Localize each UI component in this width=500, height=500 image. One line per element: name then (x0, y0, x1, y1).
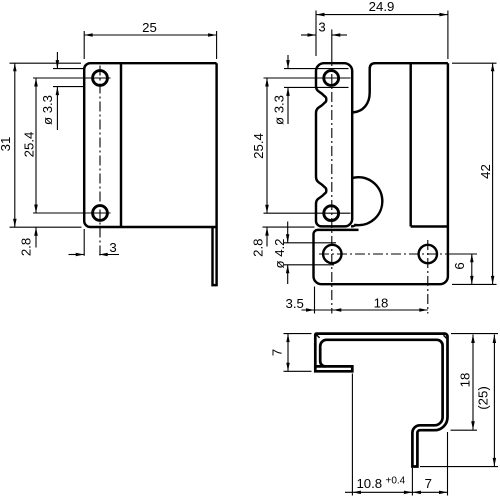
svg-text:2.8: 2.8 (251, 239, 266, 257)
svg-text:42: 42 (478, 164, 493, 179)
svg-text:18: 18 (374, 296, 389, 311)
svg-text:7: 7 (270, 349, 285, 356)
svg-text:25.4: 25.4 (22, 132, 37, 158)
svg-text:3: 3 (109, 240, 116, 255)
svg-text:ø 3.3: ø 3.3 (272, 95, 287, 125)
svg-text:3: 3 (318, 19, 325, 34)
svg-text:(25): (25) (476, 386, 491, 409)
svg-text:18: 18 (458, 373, 473, 388)
svg-text:24.9: 24.9 (369, 0, 395, 14)
svg-text:25.4: 25.4 (251, 133, 266, 159)
svg-text:+0.4: +0.4 (386, 476, 406, 487)
svg-text:31: 31 (0, 137, 13, 152)
svg-text:10.8: 10.8 (356, 476, 382, 491)
svg-text:ø 3.3: ø 3.3 (40, 95, 55, 125)
svg-text:6: 6 (452, 262, 467, 269)
svg-text:ø 4.2: ø 4.2 (272, 238, 287, 268)
svg-text:2.8: 2.8 (19, 238, 34, 256)
svg-text:3.5: 3.5 (286, 296, 304, 311)
svg-text:7: 7 (425, 476, 432, 491)
svg-text:25: 25 (142, 20, 157, 35)
